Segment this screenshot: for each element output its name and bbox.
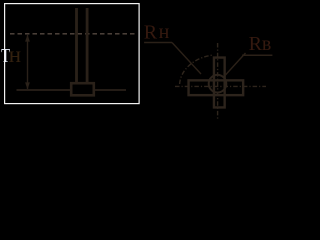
svg-text:R: R	[144, 21, 158, 43]
dash-dot vertical centerline	[217, 43, 219, 120]
post: right vertical line	[86, 8, 89, 84]
cross: horizontal bar	[189, 80, 244, 95]
leader line Rv	[225, 53, 246, 76]
dimension line Tn with arrows	[25, 35, 30, 90]
dash-dot horizontal centerline	[175, 85, 266, 87]
ground line at base	[17, 89, 127, 91]
dashed ground-level line	[10, 33, 137, 35]
dash-dot arc (outer radius Rn)	[180, 55, 212, 84]
svg-text:н: н	[9, 42, 21, 67]
underline Rn	[144, 42, 172, 44]
left figure: white frame box	[5, 4, 140, 104]
svg-text:Rв: Rв	[249, 33, 272, 55]
underline Rv	[242, 54, 272, 56]
cross: vertical bar	[214, 58, 225, 108]
post: left vertical line	[75, 8, 78, 84]
base block rectangle	[71, 83, 94, 95]
svg-text:н: н	[159, 21, 170, 43]
center circle (inner radius Rv)	[209, 75, 227, 93]
leader line Rn	[172, 43, 201, 75]
